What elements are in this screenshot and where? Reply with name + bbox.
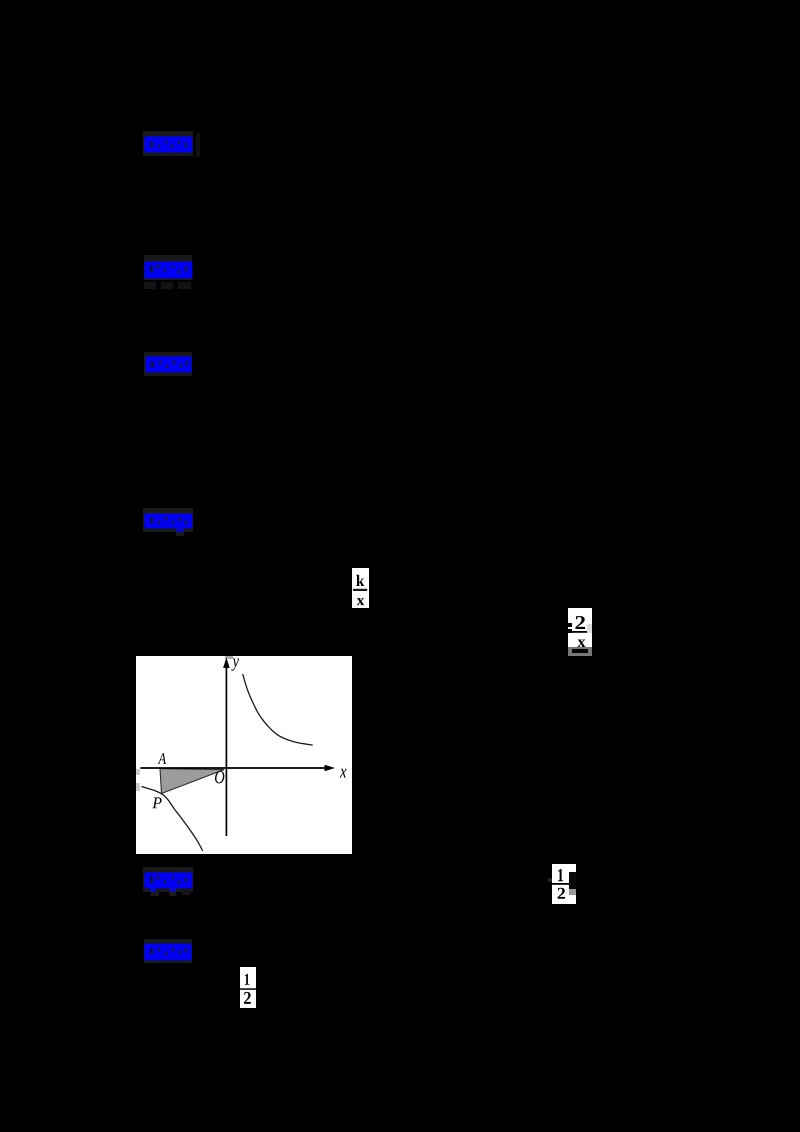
gray band bottom of 2/x — [568, 647, 592, 656]
left dashes of 2/x — [567, 623, 572, 627]
label halo 4 — [143, 508, 193, 532]
hyperbola Q1 — [243, 674, 313, 745]
x-axis — [140, 767, 327, 769]
left edge gray marks — [136, 769, 140, 775]
y-axis — [225, 664, 227, 836]
nub left of 1/2 — [548, 878, 552, 882]
hyperbola Q3 — [141, 787, 202, 851]
blue label 5 — [143, 871, 193, 889]
label y — [231, 658, 239, 670]
right gray patch of 2/x — [587, 624, 592, 633]
label P — [152, 797, 161, 808]
blue label 6 — [143, 942, 192, 961]
label halo 5 — [143, 867, 193, 892]
blue tails under label 5 — [150, 888, 156, 892]
shaded triangle APO — [160, 769, 224, 794]
label x — [340, 769, 347, 778]
blue label 4 — [143, 512, 193, 529]
label halo 3 — [144, 352, 192, 376]
label halo 1 — [143, 131, 193, 156]
blue label 3 — [144, 355, 192, 373]
right strip artifacts of 1/2 — [569, 864, 576, 872]
blue label 1 — [143, 135, 193, 153]
label halo 6 — [144, 939, 192, 963]
dark stroke right of label 1 — [196, 133, 200, 157]
fraction 1/2 second — [240, 967, 256, 1008]
fraction k/x — [352, 568, 369, 608]
blue tail under label 4 — [176, 528, 183, 533]
label O — [215, 771, 224, 783]
dark tails under label 5 — [151, 892, 159, 896]
label halo 2 — [144, 255, 192, 280]
fraction 1/2 first — [552, 864, 569, 904]
blue label 2 — [143, 260, 193, 279]
gray smudge top — [225, 656, 233, 659]
fraction 2/x with artifacts — [568, 608, 592, 656]
graph figure — [136, 656, 352, 854]
dark blobs under label 2 — [144, 282, 156, 289]
label A — [158, 753, 166, 764]
